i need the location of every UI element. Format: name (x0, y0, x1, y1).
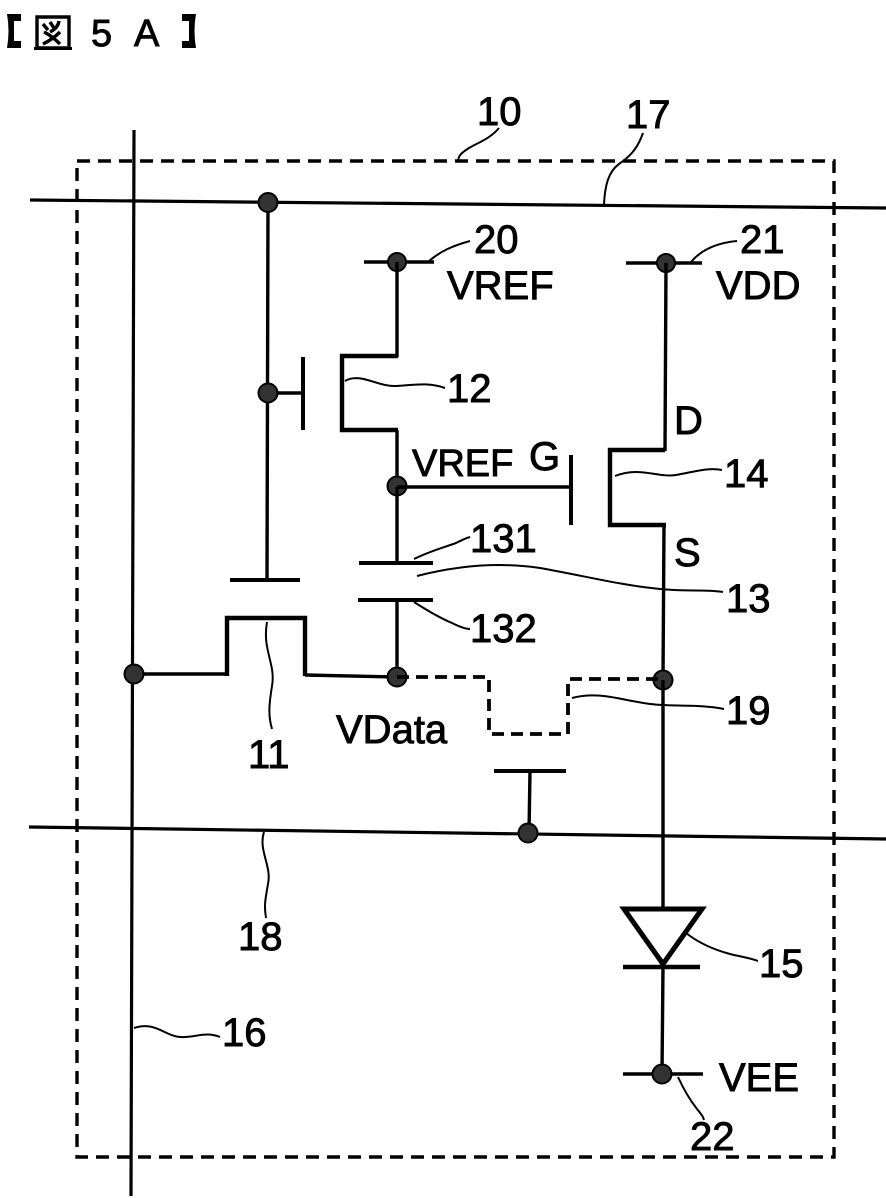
leader 131 (414, 537, 470, 559)
wire: capacitor 19 electrode to line 18 (529, 771, 530, 833)
wire: VREF terminal to transistor 12 drain (395, 262, 398, 357)
leader 10 (458, 128, 499, 162)
node at transistor 12 gate junction (259, 384, 278, 403)
wire: transistor 14 source to node 19 (663, 525, 664, 680)
leader 20 (429, 241, 470, 261)
svg-text:5: 5 (91, 13, 112, 55)
wire: gate column from line 17 to transistor 11 gate (267, 202, 268, 578)
wire: diode 15 cathode to VEE terminal (662, 967, 663, 1074)
leader 18 (262, 832, 268, 918)
svg-text:VEE: VEE (719, 1056, 799, 1100)
scan line 18 (29, 827, 886, 839)
terminal 20 bar (364, 260, 434, 264)
svg-text:131: 131 (470, 517, 537, 561)
wire: transistor 12 source to VREF node (395, 430, 398, 487)
leader 22 (678, 1077, 704, 1120)
wire: node 19 to diode 15 anode (661, 680, 664, 909)
svg-text:VData: VData (336, 708, 448, 752)
pixel boundary 10 (dashed box) (77, 161, 834, 1157)
transistor 11 gate electrode (230, 578, 300, 582)
node on line 17 (259, 193, 278, 212)
diode 15 triangle (624, 909, 702, 964)
svg-text:D: D (674, 399, 703, 443)
node on line 16 (125, 665, 144, 684)
transistor 14 channel (610, 450, 666, 525)
leader 21 (691, 241, 737, 262)
capacitor 13 upper electrode 131 (359, 561, 433, 565)
capacitor 19 counter electrode (494, 769, 566, 773)
wire: gate lead of transistor 12 (268, 391, 303, 394)
svg-text:VREF: VREF (447, 264, 554, 308)
leader 12 (345, 378, 445, 388)
wire: VDD terminal to transistor 14 drain (665, 263, 666, 451)
wire: VREF node to electrode 131 (395, 487, 398, 563)
data line 16 (131, 130, 134, 1196)
wire: electrode 132 to VData node (395, 600, 398, 677)
transistor 12 channel (342, 356, 398, 430)
leader 132 (414, 602, 470, 629)
svg-text:14: 14 (724, 452, 769, 496)
capacitor 13 lower electrode 132 (358, 598, 433, 602)
svg-text:19: 19 (726, 689, 771, 733)
svg-text:18: 18 (238, 915, 283, 959)
svg-text:15: 15 (759, 942, 804, 986)
leader 19 (572, 695, 724, 709)
leader 14 (615, 469, 722, 476)
svg-text:10: 10 (477, 90, 522, 134)
wire: gate lead of transistor 14 (397, 485, 571, 488)
leader 15 (686, 933, 758, 961)
transistor 11 channel (227, 618, 305, 676)
diode 15 cathode bar (623, 965, 700, 970)
svg-text:VREF: VREF (412, 443, 513, 485)
terminal 21 node (657, 254, 675, 272)
VData node (388, 668, 407, 687)
svg-text:21: 21 (740, 218, 785, 262)
svg-text:17: 17 (626, 93, 671, 137)
svg-text:11: 11 (248, 733, 290, 777)
svg-text:22: 22 (690, 1115, 735, 1159)
svg-text:S: S (674, 531, 701, 575)
transistor 12 gate bar (301, 357, 305, 430)
leader 11 (266, 622, 273, 729)
svg-text:G: G (529, 435, 560, 479)
title bracket right (182, 14, 196, 48)
leader 16 (134, 1026, 220, 1037)
leader 13 (417, 565, 723, 592)
svg-text:13: 13 (726, 577, 771, 621)
leader 17 (604, 133, 643, 204)
wire: transistor 11 drain to VData node (305, 675, 397, 677)
svg-text:16: 16 (222, 1011, 267, 1055)
svg-text:20: 20 (474, 218, 519, 262)
terminal 22 bar (623, 1072, 703, 1076)
dashed parasitic path 19 (397, 677, 663, 734)
transistor 14 gate bar (569, 455, 573, 525)
node 19 (654, 671, 673, 690)
svg-text:12: 12 (447, 367, 492, 411)
title bracket left (7, 14, 21, 48)
svg-text:132: 132 (470, 607, 537, 651)
wire: line 16 to transistor 11 source (134, 672, 227, 675)
scan line 17 (30, 200, 886, 208)
terminal 20 node (388, 253, 406, 271)
VREF node (388, 477, 407, 496)
terminal 22 node (653, 1065, 672, 1084)
node on line 18 (519, 824, 538, 843)
svg-text:A: A (134, 13, 160, 55)
svg-text:VDD: VDD (716, 264, 800, 308)
terminal 21 bar (626, 261, 702, 265)
title kanji ZU (34, 17, 72, 49)
